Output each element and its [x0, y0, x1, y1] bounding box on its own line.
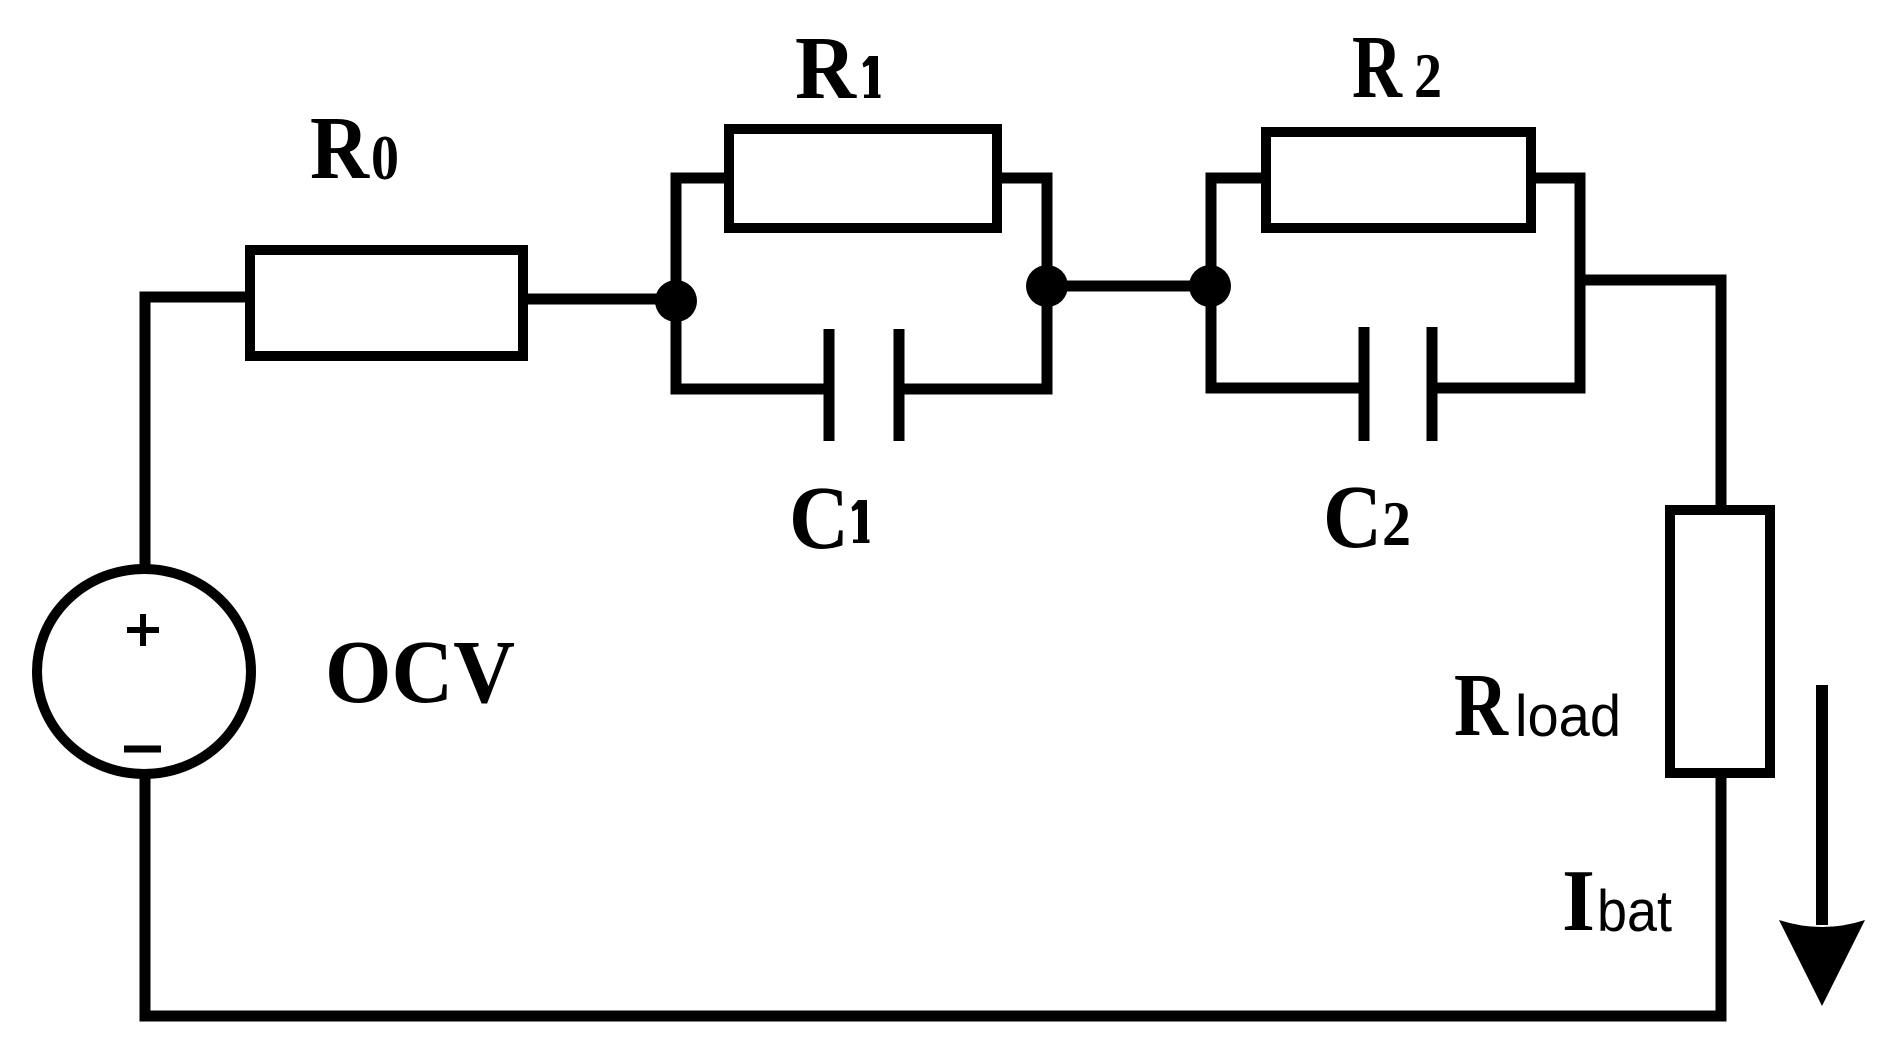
svg-text:R: R	[1454, 656, 1509, 755]
svg-text:2: 2	[1414, 41, 1442, 111]
svg-text:OCV: OCV	[325, 623, 515, 722]
svg-text:C: C	[1323, 468, 1382, 567]
svg-text:bat: bat	[1597, 879, 1672, 944]
svg-text:2: 2	[1382, 489, 1411, 559]
svg-text:R: R	[1352, 18, 1403, 117]
svg-text:R: R	[310, 99, 370, 198]
svg-text:I: I	[1562, 853, 1595, 950]
svg-text:0: 0	[371, 123, 399, 193]
svg-text:R: R	[795, 19, 857, 118]
svg-text:load: load	[1515, 684, 1621, 749]
svg-text:C: C	[789, 469, 849, 568]
